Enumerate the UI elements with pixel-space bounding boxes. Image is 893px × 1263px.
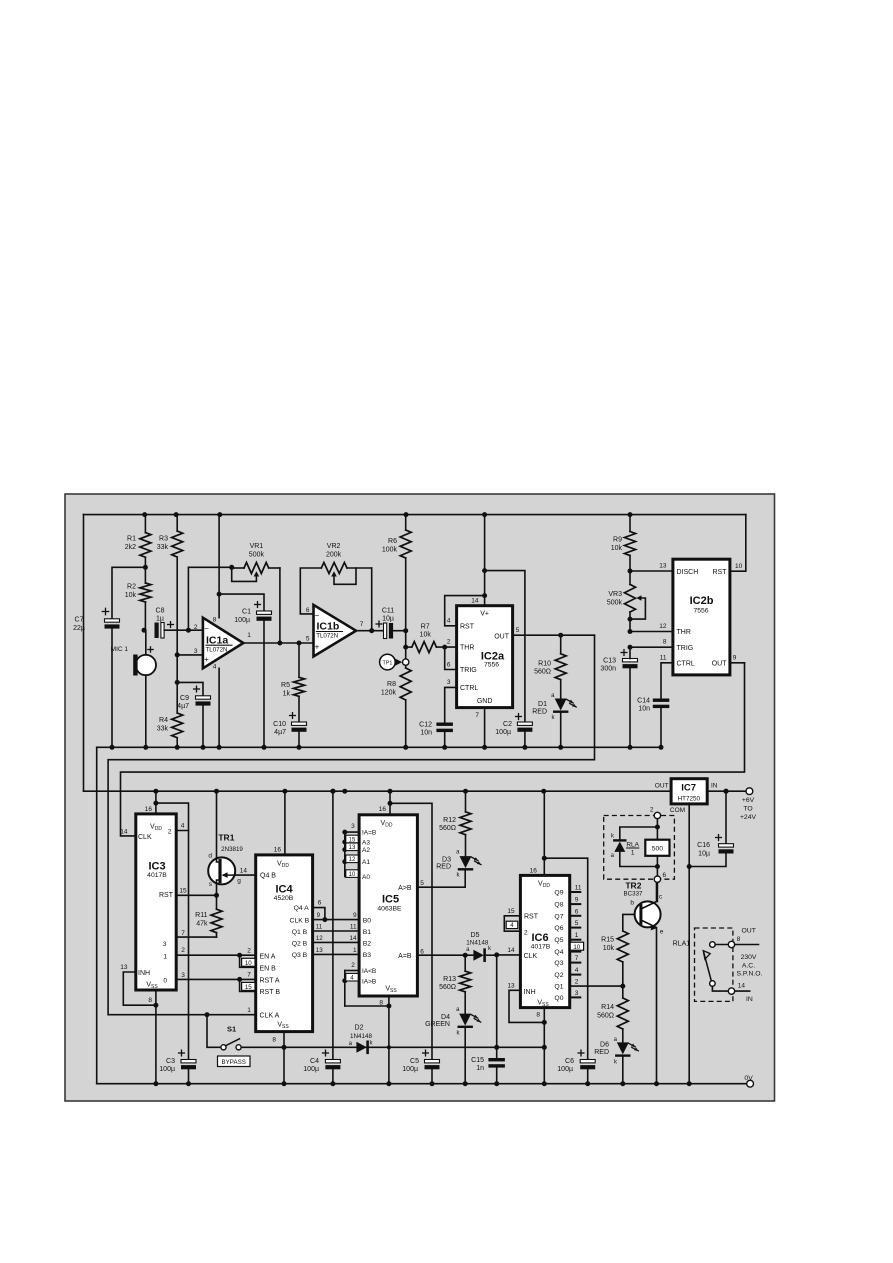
svg-text:D4: D4	[441, 1014, 450, 1021]
svg-text:3: 3	[163, 941, 167, 948]
svg-text:C2: C2	[503, 721, 512, 728]
svg-text:R6: R6	[388, 538, 397, 545]
svg-text:4: 4	[213, 664, 217, 671]
svg-text:6: 6	[420, 948, 424, 955]
svg-text:7556: 7556	[484, 662, 499, 669]
svg-text:Q8: Q8	[554, 902, 563, 909]
svg-text:4: 4	[575, 967, 579, 974]
svg-text:560Ω: 560Ω	[439, 825, 456, 832]
svg-text:14: 14	[349, 935, 357, 942]
svg-text:11: 11	[660, 654, 667, 661]
svg-text:R2: R2	[127, 584, 136, 591]
svg-text:3: 3	[351, 823, 355, 830]
svg-text:16: 16	[530, 868, 538, 875]
svg-text:DISCH: DISCH	[677, 569, 699, 576]
svg-text:C12: C12	[419, 722, 432, 729]
svg-text:5: 5	[306, 636, 310, 643]
svg-text:11: 11	[316, 923, 323, 930]
svg-text:B3: B3	[363, 952, 372, 959]
svg-text:1: 1	[575, 932, 579, 939]
svg-text:B0: B0	[363, 917, 372, 924]
svg-text:TRIG: TRIG	[460, 667, 477, 674]
svg-text:9: 9	[317, 912, 321, 919]
svg-text:TP1: TP1	[382, 661, 392, 667]
svg-text:d: d	[208, 853, 212, 860]
svg-text:10n: 10n	[638, 706, 650, 713]
svg-text:RED: RED	[532, 709, 547, 716]
svg-text:C1: C1	[242, 609, 251, 616]
svg-text:500k: 500k	[249, 552, 265, 559]
svg-text:−: −	[315, 611, 320, 620]
svg-text:12: 12	[349, 857, 356, 863]
svg-text:14: 14	[738, 983, 746, 990]
svg-text:GND: GND	[477, 698, 493, 705]
svg-text:OUT: OUT	[655, 782, 669, 789]
svg-text:b: b	[630, 900, 634, 907]
svg-text:A>B: A>B	[398, 885, 412, 892]
svg-text:IC3: IC3	[148, 861, 165, 873]
svg-text:47k: 47k	[196, 921, 208, 928]
svg-text:Q6: Q6	[554, 925, 563, 932]
svg-text:10: 10	[245, 960, 252, 967]
svg-text:2: 2	[351, 962, 355, 969]
svg-text:R5: R5	[281, 682, 290, 689]
svg-text:CLK: CLK	[524, 953, 538, 960]
svg-text:10k: 10k	[420, 632, 432, 639]
svg-text:0V: 0V	[744, 1075, 753, 1082]
svg-text:10µ: 10µ	[698, 851, 710, 858]
svg-text:Q1: Q1	[554, 984, 563, 991]
svg-text:1: 1	[247, 1007, 251, 1014]
svg-text:1N4148: 1N4148	[466, 940, 489, 947]
svg-text:100µ: 100µ	[495, 729, 511, 736]
svg-text:15: 15	[507, 908, 515, 915]
svg-text:RST: RST	[460, 623, 475, 630]
svg-text:IA<B: IA<B	[362, 968, 376, 975]
svg-text:e: e	[660, 928, 664, 935]
svg-text:IN: IN	[711, 782, 718, 789]
svg-text:IC5: IC5	[382, 894, 399, 906]
svg-text:0: 0	[163, 977, 167, 984]
svg-text:8: 8	[148, 997, 152, 1004]
svg-text:2: 2	[447, 639, 451, 646]
svg-text:Q7: Q7	[554, 913, 563, 920]
svg-text:7: 7	[181, 930, 185, 937]
svg-text:R9: R9	[613, 537, 622, 544]
svg-text:R12: R12	[443, 817, 456, 824]
svg-text:S1: S1	[227, 1025, 236, 1034]
svg-text:D2: D2	[355, 1025, 364, 1032]
svg-text:C8: C8	[156, 608, 165, 615]
svg-text:13: 13	[659, 563, 667, 570]
svg-text:3: 3	[575, 990, 579, 997]
svg-text:300n: 300n	[600, 666, 616, 673]
svg-text:R11: R11	[195, 912, 207, 919]
svg-text:4µ7: 4µ7	[274, 729, 286, 736]
svg-text:6: 6	[318, 899, 322, 906]
svg-text:C6: C6	[565, 1058, 574, 1065]
svg-text:8: 8	[213, 617, 217, 624]
svg-text:6: 6	[447, 662, 451, 669]
svg-text:Q2 B: Q2 B	[292, 940, 308, 947]
svg-text:9: 9	[733, 654, 737, 661]
svg-text:560Ω: 560Ω	[534, 669, 551, 676]
svg-text:INH: INH	[524, 989, 536, 996]
svg-text:33k: 33k	[157, 544, 169, 551]
svg-text:RED: RED	[594, 1049, 609, 1056]
svg-text:13: 13	[120, 964, 128, 971]
svg-text:Q4 A: Q4 A	[294, 905, 310, 912]
svg-text:THR: THR	[460, 645, 474, 652]
svg-text:100µ: 100µ	[234, 617, 250, 624]
svg-text:22µ: 22µ	[73, 625, 85, 632]
svg-text:INH: INH	[138, 970, 150, 977]
svg-text:+6V: +6V	[742, 797, 755, 804]
svg-text:C15: C15	[471, 1057, 484, 1064]
svg-text:14: 14	[507, 947, 515, 954]
svg-text:3: 3	[447, 679, 451, 686]
svg-text:Q0: Q0	[554, 995, 563, 1002]
svg-text:C9: C9	[180, 695, 189, 702]
svg-text:11: 11	[350, 923, 357, 930]
svg-text:C4: C4	[310, 1058, 319, 1065]
svg-text:RST: RST	[524, 914, 539, 921]
svg-text:D5: D5	[471, 932, 480, 939]
svg-text:VR2: VR2	[327, 543, 341, 550]
svg-text:OUT: OUT	[712, 661, 728, 668]
svg-text:2: 2	[575, 979, 579, 986]
svg-text:14: 14	[240, 868, 248, 875]
svg-text:12: 12	[659, 623, 667, 630]
svg-text:200k: 200k	[326, 552, 342, 559]
svg-text:EN B: EN B	[260, 966, 277, 973]
svg-text:1: 1	[247, 632, 251, 639]
svg-text:16: 16	[379, 806, 387, 813]
svg-text:Q2: Q2	[554, 972, 563, 979]
svg-text:4µ7: 4µ7	[177, 703, 189, 710]
svg-text:560Ω: 560Ω	[597, 1013, 614, 1020]
svg-text:9: 9	[575, 897, 579, 904]
svg-text:13: 13	[507, 982, 515, 989]
svg-text:2: 2	[524, 929, 528, 936]
svg-text:560Ω: 560Ω	[439, 984, 456, 991]
svg-text:A1: A1	[362, 859, 370, 866]
svg-text:100µ: 100µ	[402, 1066, 418, 1073]
svg-text:C3: C3	[166, 1058, 175, 1065]
svg-text:HT7250: HT7250	[678, 795, 701, 802]
svg-text:6: 6	[575, 908, 579, 915]
svg-text:RLA: RLA	[626, 841, 639, 848]
svg-text:1k: 1k	[283, 691, 291, 698]
svg-text:8: 8	[663, 639, 667, 646]
svg-text:IA>B: IA>B	[362, 979, 376, 986]
svg-text:Q1 B: Q1 B	[292, 929, 308, 936]
svg-text:9: 9	[353, 912, 357, 919]
svg-text:11: 11	[575, 885, 582, 892]
svg-text:C13: C13	[603, 658, 616, 665]
svg-text:TL072N: TL072N	[206, 647, 228, 654]
svg-text:3: 3	[194, 648, 198, 655]
svg-text:TR1: TR1	[218, 832, 234, 842]
svg-text:16: 16	[145, 806, 153, 813]
svg-text:R7: R7	[421, 624, 430, 631]
svg-text:R14: R14	[601, 1004, 614, 1011]
svg-text:4017B: 4017B	[531, 943, 551, 950]
svg-text:D1: D1	[538, 701, 547, 708]
svg-text:14: 14	[120, 828, 128, 835]
svg-text:A2: A2	[362, 847, 370, 854]
svg-text:R8: R8	[387, 681, 396, 688]
svg-text:A0: A0	[362, 874, 370, 881]
svg-text:5: 5	[575, 920, 579, 927]
svg-text:B1: B1	[363, 929, 372, 936]
svg-text:1: 1	[631, 850, 635, 857]
svg-text:CTRL: CTRL	[460, 685, 478, 692]
svg-text:RST B: RST B	[260, 989, 281, 996]
svg-text:IC2b: IC2b	[690, 595, 714, 607]
svg-text:14: 14	[471, 598, 479, 605]
svg-text:Q3 B: Q3 B	[292, 952, 308, 959]
svg-text:THR: THR	[677, 629, 691, 636]
svg-text:3: 3	[181, 972, 185, 979]
svg-text:2: 2	[194, 624, 198, 631]
svg-text:Q9: Q9	[554, 890, 563, 897]
svg-text:10: 10	[349, 872, 356, 878]
svg-text:OUT: OUT	[494, 633, 510, 640]
svg-text:D3: D3	[442, 857, 451, 864]
svg-text:TL072N: TL072N	[316, 633, 338, 640]
svg-text:10k: 10k	[611, 545, 623, 552]
svg-text:TO: TO	[743, 806, 752, 813]
svg-text:R4: R4	[159, 717, 168, 724]
svg-text:+: +	[315, 643, 320, 652]
svg-text:2: 2	[650, 807, 654, 814]
svg-text:6: 6	[306, 607, 310, 614]
svg-text:−: −	[204, 624, 209, 633]
svg-text:7: 7	[575, 955, 579, 962]
svg-text:6: 6	[663, 872, 667, 879]
svg-text:EN A: EN A	[260, 953, 276, 960]
svg-text:MIC 1: MIC 1	[111, 646, 129, 653]
svg-text:RST A: RST A	[260, 978, 280, 985]
svg-text:100µ: 100µ	[303, 1066, 319, 1073]
svg-text:230V: 230V	[741, 954, 757, 961]
svg-text:4: 4	[181, 823, 185, 830]
svg-text:R1: R1	[127, 536, 136, 543]
svg-text:IC1a: IC1a	[206, 634, 228, 646]
svg-text:TR2: TR2	[625, 881, 641, 891]
svg-text:IN: IN	[746, 996, 753, 1003]
svg-text:C14: C14	[637, 698, 650, 705]
svg-text:1: 1	[353, 947, 357, 954]
svg-text:1µ: 1µ	[156, 616, 164, 623]
svg-text:GREEN: GREEN	[425, 1021, 450, 1028]
svg-text:R15: R15	[601, 937, 614, 944]
svg-text:4520B: 4520B	[274, 895, 294, 902]
svg-text:500k: 500k	[607, 600, 623, 607]
svg-text:4063BE: 4063BE	[377, 906, 402, 913]
svg-text:A3: A3	[362, 839, 370, 846]
svg-text:CLK A: CLK A	[260, 1012, 280, 1019]
svg-text:10: 10	[735, 563, 743, 570]
svg-text:RST: RST	[713, 569, 728, 576]
svg-text:R3: R3	[159, 536, 168, 543]
svg-text:C7: C7	[75, 617, 84, 624]
svg-text:7556: 7556	[693, 608, 708, 615]
svg-text:Q3: Q3	[554, 960, 563, 967]
svg-text:Q4 B: Q4 B	[260, 872, 276, 879]
svg-text:10k: 10k	[125, 592, 137, 599]
svg-text:C5: C5	[410, 1058, 419, 1065]
svg-text:7: 7	[360, 621, 364, 628]
svg-text:13: 13	[349, 845, 356, 851]
svg-text:RLA1: RLA1	[673, 940, 691, 947]
svg-text:VR1: VR1	[250, 543, 264, 550]
svg-text:15: 15	[245, 984, 252, 991]
svg-text:S.P.N.O.: S.P.N.O.	[737, 970, 763, 977]
svg-text:4017B: 4017B	[147, 872, 167, 879]
svg-text:IA=B: IA=B	[362, 830, 376, 837]
svg-text:10k: 10k	[603, 945, 615, 952]
svg-text:C11: C11	[382, 608, 394, 615]
svg-text:10µ: 10µ	[382, 616, 394, 623]
svg-text:4: 4	[510, 922, 514, 929]
svg-text:500: 500	[652, 846, 664, 853]
svg-text:+: +	[204, 655, 209, 664]
svg-text:RST: RST	[159, 892, 174, 899]
svg-text:+24V: +24V	[740, 814, 757, 821]
svg-text:R10: R10	[538, 661, 551, 668]
svg-text:1n: 1n	[476, 1065, 484, 1072]
svg-text:IC1b: IC1b	[317, 621, 340, 633]
svg-text:8: 8	[379, 999, 383, 1006]
svg-text:1: 1	[163, 953, 167, 960]
svg-text:2: 2	[168, 828, 172, 835]
svg-text:5: 5	[516, 627, 520, 634]
svg-text:5: 5	[420, 880, 424, 887]
svg-text:COM: COM	[670, 807, 685, 814]
svg-text:BC337: BC337	[624, 891, 643, 898]
svg-text:A=B: A=B	[398, 953, 412, 960]
svg-text:33k: 33k	[157, 726, 169, 733]
svg-text:R13: R13	[443, 976, 456, 983]
svg-text:Q5: Q5	[554, 937, 563, 944]
svg-text:10: 10	[573, 944, 580, 951]
svg-text:2: 2	[247, 947, 251, 954]
svg-text:15: 15	[179, 887, 187, 894]
svg-text:4: 4	[447, 618, 451, 625]
svg-text:A.C.: A.C.	[742, 962, 755, 969]
svg-text:D6: D6	[600, 1042, 609, 1049]
svg-text:C10: C10	[273, 721, 286, 728]
svg-text:2N3819: 2N3819	[221, 846, 243, 853]
svg-text:B2: B2	[363, 940, 372, 947]
svg-text:OUT: OUT	[742, 928, 756, 935]
svg-text:12: 12	[316, 935, 323, 942]
svg-text:V+: V+	[480, 610, 489, 617]
svg-text:RED: RED	[436, 864, 451, 871]
svg-text:2k2: 2k2	[125, 544, 136, 551]
svg-text:7: 7	[247, 972, 251, 979]
svg-text:1N4148: 1N4148	[350, 1033, 373, 1040]
svg-text:100µ: 100µ	[159, 1066, 175, 1073]
svg-text:8: 8	[737, 936, 741, 943]
svg-text:IC4: IC4	[275, 883, 293, 895]
svg-text:C16: C16	[697, 842, 710, 849]
svg-text:10n: 10n	[420, 730, 432, 737]
svg-text:120k: 120k	[381, 690, 397, 697]
svg-text:CLK B: CLK B	[290, 917, 310, 924]
svg-text:13: 13	[316, 947, 323, 954]
svg-text:IC7: IC7	[681, 783, 696, 794]
svg-text:8: 8	[536, 1012, 540, 1019]
svg-text:CTRL: CTRL	[677, 661, 695, 668]
svg-text:TRIG: TRIG	[677, 645, 694, 652]
svg-text:8: 8	[272, 1037, 276, 1044]
svg-text:g: g	[237, 878, 241, 885]
svg-text:100k: 100k	[382, 547, 398, 554]
svg-text:2: 2	[181, 947, 185, 954]
svg-text:7: 7	[475, 712, 479, 719]
svg-text:IC6: IC6	[531, 932, 548, 944]
svg-text:CLK: CLK	[138, 834, 152, 841]
svg-text:16: 16	[274, 847, 282, 854]
svg-text:VR3: VR3	[608, 591, 622, 598]
svg-text:BYPASS: BYPASS	[222, 1059, 246, 1066]
svg-text:Q4: Q4	[554, 949, 563, 956]
svg-text:100µ: 100µ	[557, 1066, 573, 1073]
